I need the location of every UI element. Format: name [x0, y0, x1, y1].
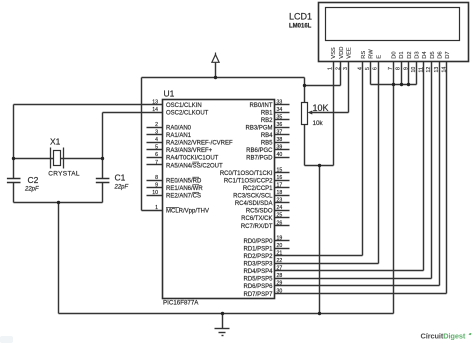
svg-text:5: 5: [365, 67, 371, 70]
svg-text:RB6/PGC: RB6/PGC: [246, 148, 273, 154]
svg-text:14: 14: [152, 107, 158, 113]
svg-text:3: 3: [155, 130, 158, 136]
svg-text:29: 29: [277, 281, 283, 287]
svg-text:10: 10: [411, 67, 417, 73]
svg-text:VEE: VEE: [347, 47, 353, 59]
svg-text:8: 8: [396, 67, 402, 70]
svg-text:OSC1/CLKIN: OSC1/CLKIN: [166, 103, 202, 109]
svg-text:3: 3: [343, 67, 349, 70]
svg-text:MCLR/Vpp/THV: MCLR/Vpp/THV: [166, 209, 209, 215]
svg-text:23: 23: [277, 198, 283, 204]
svg-text:35: 35: [277, 114, 283, 120]
svg-text:25: 25: [277, 213, 283, 219]
svg-text:C1: C1: [115, 173, 126, 183]
svg-text:9: 9: [155, 182, 158, 188]
svg-text:X1: X1: [50, 137, 61, 147]
svg-text:RC3/SCK/SCL: RC3/SCK/SCL: [233, 194, 273, 200]
svg-text:24: 24: [277, 205, 283, 211]
svg-text:17: 17: [277, 182, 283, 188]
svg-text:39: 39: [277, 145, 283, 151]
svg-text:14: 14: [441, 67, 447, 73]
svg-text:2: 2: [155, 122, 158, 128]
svg-text:D2: D2: [407, 51, 413, 58]
svg-text:RC5/SDO: RC5/SDO: [246, 209, 273, 215]
svg-text:D7: D7: [445, 51, 451, 58]
svg-text:RC7/RX/DT: RC7/RX/DT: [241, 224, 273, 230]
svg-text:D6: D6: [437, 51, 443, 58]
svg-text:RC0/T1OSO/T1CKI: RC0/T1OSO/T1CKI: [220, 171, 273, 177]
svg-text:4: 4: [358, 67, 364, 70]
svg-text:RB1: RB1: [261, 110, 273, 116]
svg-text:20: 20: [277, 243, 283, 249]
svg-text:28: 28: [277, 273, 283, 279]
svg-text:33: 33: [277, 99, 283, 105]
svg-text:36: 36: [277, 122, 283, 128]
svg-text:RC4/SDI/SDA: RC4/SDI/SDA: [235, 201, 273, 207]
svg-text:D1: D1: [399, 51, 405, 58]
svg-text:RD5/PSP5: RD5/PSP5: [243, 277, 273, 283]
svg-text:10: 10: [152, 190, 158, 196]
svg-text:RB3/PGM: RB3/PGM: [245, 125, 272, 131]
svg-text:LCD1: LCD1: [289, 12, 312, 22]
svg-text:D4: D4: [422, 51, 428, 59]
svg-text:VSS: VSS: [331, 47, 337, 59]
svg-text:1: 1: [155, 205, 158, 211]
svg-text:12: 12: [426, 67, 432, 73]
svg-text:RD7/PSP7: RD7/PSP7: [243, 292, 273, 298]
svg-text:22pF: 22pF: [24, 187, 39, 193]
svg-text:RB5: RB5: [261, 141, 273, 147]
svg-text:4: 4: [155, 137, 158, 143]
svg-text:13: 13: [152, 99, 158, 105]
svg-text:7: 7: [155, 160, 158, 166]
svg-text:RC6/TX/CK: RC6/TX/CK: [241, 216, 272, 222]
svg-text:7: 7: [388, 67, 394, 70]
svg-text:19: 19: [277, 235, 283, 241]
svg-text:22: 22: [277, 258, 283, 264]
svg-text:18: 18: [277, 190, 283, 196]
svg-text:LM016L: LM016L: [289, 23, 312, 29]
svg-text:RB0/INT: RB0/INT: [249, 103, 272, 109]
svg-text:1: 1: [328, 67, 334, 70]
svg-text:RB2: RB2: [261, 118, 273, 124]
svg-text:U1: U1: [164, 88, 175, 98]
svg-text:RA0/AN0: RA0/AN0: [166, 125, 192, 131]
svg-text:RD2/PSP2: RD2/PSP2: [243, 254, 273, 260]
svg-text:RD0/PSP0: RD0/PSP0: [243, 239, 273, 245]
svg-text:6: 6: [373, 67, 379, 70]
svg-text:RW: RW: [369, 49, 375, 59]
svg-text:2: 2: [335, 67, 341, 70]
svg-text:21: 21: [277, 251, 283, 257]
svg-text:RD3/PSP3: RD3/PSP3: [243, 262, 273, 268]
svg-text:RA2/AN2/VREF-/CVREF: RA2/AN2/VREF-/CVREF: [166, 141, 233, 147]
svg-text:RA4/T0CKI/C1OUT: RA4/T0CKI/C1OUT: [166, 156, 219, 162]
svg-text:34: 34: [277, 107, 283, 113]
svg-text:C2: C2: [28, 175, 39, 185]
svg-text:RA5/AN4/SS/C2OUT: RA5/AN4/SS/C2OUT: [166, 163, 223, 169]
svg-text:VDD: VDD: [339, 47, 345, 59]
svg-text:RA3/AN3/VREF+: RA3/AN3/VREF+: [166, 148, 213, 154]
svg-text:RD1/PSP1: RD1/PSP1: [243, 246, 273, 252]
svg-text:RC2/CCP1: RC2/CCP1: [243, 186, 273, 192]
svg-text:RC1/T1OSI/CCP2: RC1/T1OSI/CCP2: [224, 178, 273, 184]
svg-text:38: 38: [277, 137, 283, 143]
svg-text:8: 8: [155, 175, 158, 181]
svg-text:30: 30: [277, 288, 283, 294]
svg-text:RE2/AN7/CS: RE2/AN7/CS: [166, 194, 201, 200]
svg-text:D5: D5: [430, 51, 436, 58]
svg-text:RE1/AN6/WR: RE1/AN6/WR: [166, 186, 203, 192]
svg-text:11: 11: [419, 67, 425, 72]
svg-text:RD4/PSP4: RD4/PSP4: [243, 269, 273, 275]
svg-text:CírcuitDigest: CírcuitDigest: [421, 332, 466, 341]
svg-text:RA1/AN1: RA1/AN1: [166, 133, 192, 139]
svg-text:OSC2/CLKOUT: OSC2/CLKOUT: [166, 110, 209, 116]
svg-text:10K: 10K: [313, 103, 329, 113]
svg-text:RB4: RB4: [261, 133, 273, 139]
svg-text:40: 40: [277, 152, 283, 158]
svg-text:10k: 10k: [313, 120, 324, 127]
svg-text:5: 5: [155, 145, 158, 151]
svg-text:RB7/PGD: RB7/PGD: [246, 156, 273, 162]
svg-text:37: 37: [277, 130, 283, 136]
svg-text:15: 15: [277, 167, 283, 173]
svg-text:6: 6: [155, 152, 158, 158]
svg-text:D3: D3: [414, 51, 420, 58]
svg-text:PIC16F877A: PIC16F877A: [163, 300, 199, 307]
svg-text:16: 16: [277, 175, 283, 181]
svg-text:13: 13: [434, 67, 440, 73]
svg-text:E: E: [376, 55, 382, 59]
svg-text:RS: RS: [361, 51, 367, 59]
svg-text:RD6/PSP6: RD6/PSP6: [243, 284, 273, 290]
svg-text:RE0/AN5/RD: RE0/AN5/RD: [166, 178, 202, 184]
svg-text:D0: D0: [392, 51, 398, 58]
svg-text:CRYSTAL: CRYSTAL: [48, 171, 80, 178]
svg-text:26: 26: [277, 220, 283, 226]
svg-text:9: 9: [403, 67, 409, 70]
svg-text:22pF: 22pF: [114, 184, 129, 190]
svg-text:27: 27: [277, 266, 283, 272]
